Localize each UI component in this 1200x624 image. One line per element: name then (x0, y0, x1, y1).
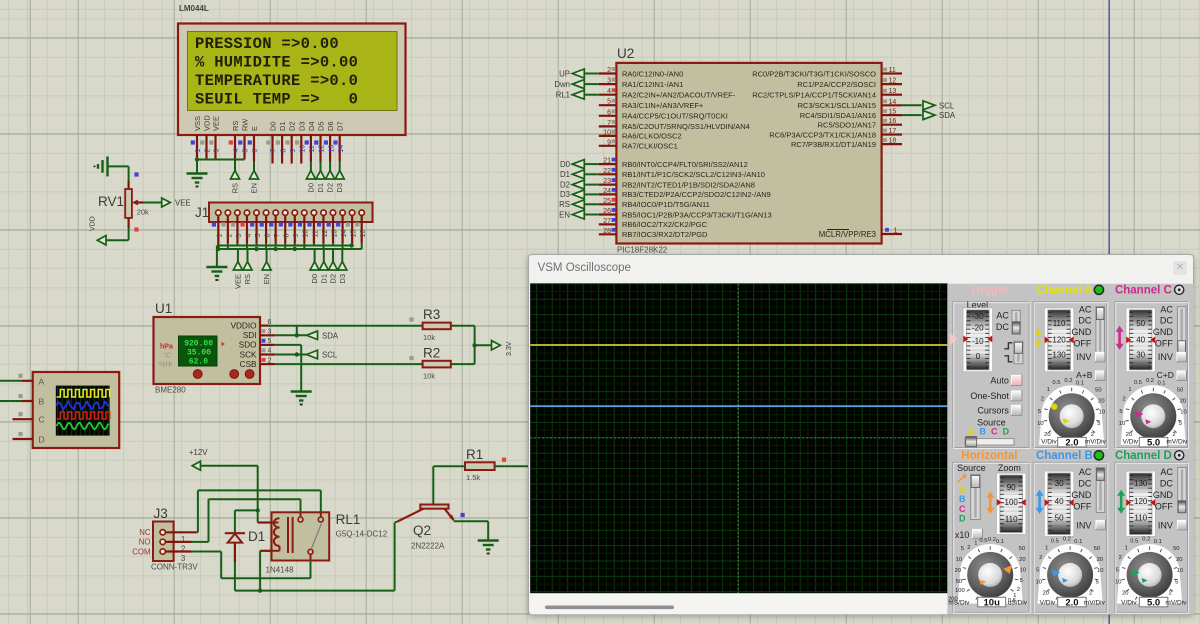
resistor R2 body (423, 361, 451, 368)
J1 pin 4 stub (246, 215, 248, 243)
svg-text:1.5k: 1.5k (466, 473, 480, 482)
svg-text:RS: RS (559, 200, 570, 209)
svg-text:GND: GND (1152, 490, 1173, 500)
J1 pin 16 state square (355, 222, 359, 226)
svg-text:5: 5 (1115, 568, 1118, 574)
svg-text:V/Div: V/Div (1121, 599, 1137, 606)
potentiometer RV1 body (125, 189, 132, 218)
wire to mini scope pin B (0, 400, 22, 402)
svg-text:VEE: VEE (233, 274, 242, 289)
svg-text:J1: J1 (195, 205, 209, 220)
LCD pin 6 stub (253, 135, 255, 161)
svg-text:16: 16 (360, 230, 367, 238)
svg-text:RC6/P3A/CCP3/TX1/CK1/AN18: RC6/P3A/CCP3/TX1/CK1/AN18 (769, 130, 876, 139)
svg-text:OFF: OFF (1154, 501, 1172, 511)
J1 pin 1 state square (212, 222, 216, 226)
svg-text:RA2/C2IN+/AN2/DACOUT/VREF-: RA2/C2IN+/AN2/DACOUT/VREF- (622, 91, 736, 100)
terminal RS below LCD (234, 161, 236, 171)
svg-text:Channel C: Channel C (1115, 284, 1172, 296)
svg-text:RB0/INT0/CCP4/FLT0/SRI/SS2/AN1: RB0/INT0/CCP4/FLT0/SRI/SS2/AN12 (622, 160, 748, 169)
microcontroller U2 body (616, 63, 881, 244)
svg-text:3: 3 (268, 329, 272, 336)
svg-text:5: 5 (1037, 409, 1040, 415)
svg-text:5: 5 (1175, 580, 1178, 586)
J1 pin 7 state square (269, 222, 273, 226)
J1 pin 6 circle (263, 210, 268, 215)
wire RV1 wiper to VEE (144, 202, 162, 204)
svg-text:UP: UP (559, 69, 570, 78)
J1 pin 12 state square (317, 222, 321, 226)
svg-text:5: 5 (243, 149, 250, 153)
channel C LED (1174, 285, 1183, 294)
RV1 top pin stub (128, 181, 130, 189)
svg-text:50: 50 (1054, 514, 1063, 523)
svg-text:OFF: OFF (1154, 339, 1172, 349)
terminal D0 at U2 RB0 (585, 163, 599, 165)
svg-text:2: 2 (1172, 432, 1175, 438)
BME280 green display (179, 336, 218, 366)
LCD pin 1 state square (191, 140, 195, 144)
J1 pin 8 stub (284, 215, 286, 243)
J1 pin 8 circle (283, 210, 288, 215)
svg-text:D4: D4 (307, 121, 316, 131)
svg-text:G5Q-14-DC12: G5Q-14-DC12 (336, 530, 388, 539)
channel C position arrow (1118, 330, 1121, 346)
J1 pin 11 state square (307, 222, 311, 226)
svg-text:14: 14 (341, 230, 348, 238)
channel C position gauge (1126, 308, 1156, 372)
LCD pin 14 stub (339, 135, 341, 162)
U2 pin 3 (RA1) stub (599, 83, 617, 85)
connector J3 body (153, 522, 174, 562)
svg-text:24: 24 (603, 188, 611, 195)
U2 pin 14 (RC3) stub (882, 104, 902, 106)
LCD pin 10 stub (300, 135, 302, 164)
channel D V/Div knob (1116, 544, 1182, 604)
wire J1 pin 1 riser (217, 243, 219, 246)
svg-text:0.2: 0.2 (1064, 378, 1072, 384)
svg-text:NC: NC (139, 528, 151, 537)
svg-text:RC1/P2A/CCP2/SOSCI: RC1/P2A/CCP2/SOSCI (797, 80, 876, 89)
svg-text:4: 4 (268, 348, 272, 355)
svg-text:RB1/INT1/P1C/SCK2/SCL2/C12IN3-: RB1/INT1/P1C/SCK2/SCL2/C12IN3-/AN10 (622, 170, 765, 179)
svg-text:D: D (39, 435, 45, 445)
channel D position gauge (1126, 471, 1156, 536)
svg-text:0.1: 0.1 (1157, 380, 1165, 386)
wire to mini scope pin A (0, 380, 22, 382)
svg-text:VDD: VDD (203, 115, 212, 131)
U2 pin 28 (RB7) stub (599, 233, 617, 235)
horizontal zoom gauge (996, 473, 1025, 534)
svg-text:Channel B: Channel B (1036, 450, 1093, 462)
svg-text:Q2: Q2 (413, 523, 431, 538)
svg-text:50: 50 (1093, 546, 1099, 552)
channel D LED (1174, 451, 1183, 460)
svg-text:RB5/IOC1/P2B/P3A/CCP3/T3CKI/T1: RB5/IOC1/P2B/P3A/CCP3/T3CKI/T1G/AN13 (622, 210, 772, 219)
resistor R3 body (423, 323, 451, 330)
svg-text:120: 120 (1134, 497, 1148, 506)
svg-text:3.3V: 3.3V (506, 341, 513, 356)
J1 pin 1 stub (217, 215, 219, 247)
J1 pin 11 stub (313, 215, 315, 243)
svg-text:50: 50 (1176, 387, 1182, 393)
svg-text:BME280: BME280 (155, 386, 186, 395)
svg-text:2: 2 (1118, 555, 1121, 561)
svg-text:B: B (979, 426, 986, 436)
svg-text:Channel A: Channel A (1036, 284, 1092, 296)
svg-text:D1: D1 (248, 529, 265, 544)
channel B position arrow (1038, 494, 1041, 510)
channel A V/Div knob (1038, 385, 1104, 445)
svg-text:mV/Div: mV/Div (1085, 438, 1107, 445)
Q2 emitter lead with arrow (445, 509, 454, 520)
svg-text:mV/Div: mV/Div (1165, 599, 1187, 606)
terminal D2 below J1 (332, 249, 334, 262)
terminal D1 below J1 (323, 249, 325, 262)
J1 pin 12 stub (322, 215, 324, 243)
svg-text:5.0: 5.0 (1147, 597, 1160, 608)
svg-text:E: E (250, 126, 259, 131)
wire R1 right (495, 465, 529, 467)
svg-text:D0: D0 (560, 160, 571, 169)
svg-text:mV/Div: mV/Div (1166, 438, 1188, 445)
svg-text:9: 9 (607, 139, 611, 146)
svg-text:11: 11 (889, 67, 896, 74)
J1 pin 10 stub (303, 215, 305, 243)
oscilloscope title bar (529, 255, 1193, 282)
svg-text:CSB: CSB (240, 360, 257, 369)
channel B section (1033, 462, 1107, 612)
svg-text:LM044L: LM044L (179, 4, 209, 13)
LCD pin 13 stub (329, 135, 331, 162)
svg-text:RB7/IOC3/RX2/DT2/PGD: RB7/IOC3/RX2/DT2/PGD (622, 230, 708, 239)
svg-text:0.5: 0.5 (1050, 539, 1058, 545)
oscilloscope screen (530, 284, 947, 594)
wire J1 bus upper (217, 245, 352, 247)
wire J1 pin 13 riser (332, 243, 334, 246)
svg-text:1: 1 (195, 149, 202, 153)
svg-text:25: 25 (603, 198, 611, 205)
svg-text:3: 3 (236, 234, 243, 238)
svg-text:AC: AC (1160, 467, 1173, 477)
svg-text:RW: RW (241, 118, 250, 131)
wire R1 left to Q2 base (433, 465, 465, 467)
svg-text:2: 2 (1122, 396, 1125, 402)
svg-text:9: 9 (293, 234, 300, 238)
J1 pin 3 stub (236, 215, 238, 243)
svg-text:2: 2 (1089, 591, 1092, 597)
wire LCD VSS/VDD/VEE/RW junction bus (197, 159, 245, 161)
horizontal zoom arrow (989, 496, 992, 510)
svg-text:Zoom: Zoom (997, 463, 1020, 473)
BME280 pad dots (193, 370, 202, 379)
svg-text:AC: AC (1160, 304, 1173, 314)
LCD pin 1 stub (196, 135, 198, 160)
J3 pin 3 circle (160, 549, 165, 554)
J1 pin 5 stub (255, 215, 257, 243)
svg-text:VDD: VDD (90, 216, 97, 231)
channel A position gauge (1044, 308, 1074, 372)
svg-text:4: 4 (245, 234, 252, 238)
channel C V/Div knob (1120, 385, 1186, 445)
svg-text:12: 12 (889, 78, 897, 85)
oscilloscope horizontal scrollbar (530, 593, 947, 614)
U2 pin 27 (RB6) stub (599, 223, 617, 225)
svg-text:OFF: OFF (1073, 339, 1091, 349)
svg-text:hPa: hPa (160, 344, 173, 351)
RL1 core lines (287, 517, 289, 553)
J1 pin 13 state square (327, 222, 331, 226)
svg-text:INV: INV (1157, 520, 1172, 530)
svg-text:SCK: SCK (240, 350, 257, 359)
svg-text:11: 11 (312, 230, 319, 237)
svg-text:1: 1 (1046, 387, 1049, 393)
terminal RL1 at U2 (585, 94, 599, 96)
mini scope component body (33, 372, 120, 448)
ground below J1 (216, 246, 218, 267)
svg-text:2: 2 (226, 234, 233, 238)
channel D position arrow (1119, 494, 1122, 510)
wire SDI to SDA terminal (275, 334, 306, 336)
svg-text:GND: GND (1071, 327, 1092, 337)
svg-text:D1: D1 (316, 183, 325, 193)
svg-text:RC3/SCK1/SCL1/AN15: RC3/SCK1/SCL1/AN15 (798, 101, 876, 110)
svg-text:SDI: SDI (243, 331, 257, 340)
svg-text:50: 50 (1136, 319, 1145, 328)
J1 pin 15 circle (349, 210, 354, 215)
svg-text:U1: U1 (155, 301, 172, 316)
svg-text:C: C (39, 415, 45, 425)
svg-text:D: D (959, 514, 966, 524)
svg-text:1: 1 (974, 540, 977, 546)
wire SCK to SCL terminal (275, 354, 306, 356)
svg-text:EN: EN (262, 274, 271, 284)
terminal D3 at U2 RB3 (585, 193, 599, 195)
svg-text:100: 100 (1004, 498, 1018, 507)
svg-text:26: 26 (603, 208, 611, 215)
svg-text:RA1/C12IN1-/AN1: RA1/C12IN1-/AN1 (622, 80, 683, 89)
wire J1 pin 12 riser (322, 243, 324, 249)
oscilloscope screen grid (535, 284, 537, 594)
svg-text:120: 120 (1052, 336, 1066, 345)
svg-text:RB4/IOC0/P1D/T5G/AN11: RB4/IOC0/P1D/T5G/AN11 (622, 200, 710, 209)
J1 pin 10 state square (298, 222, 302, 226)
oscilloscope control panel (947, 284, 1194, 615)
U2 pin 25 (RB4) stub (599, 203, 617, 205)
svg-text:AC: AC (1078, 467, 1091, 477)
LCD pin 8 stub (281, 135, 283, 164)
D1 anode lead (234, 543, 236, 562)
trigger section (952, 302, 1028, 448)
terminal SDA (307, 331, 318, 340)
svg-text:40: 40 (1136, 336, 1145, 345)
LCD pin 3 state square (209, 140, 213, 144)
ground at RV1 top (106, 156, 108, 176)
wire J1 pin 3 riser (236, 243, 238, 246)
svg-text:DC: DC (1159, 316, 1172, 326)
J1 pin 13 stub (332, 215, 334, 243)
U2 pin 26 (RB5) stub (599, 213, 617, 215)
wire J1 pin 2 riser (227, 243, 229, 249)
terminal D1 below LCD (320, 162, 322, 171)
svg-text:A+B: A+B (1076, 370, 1093, 380)
svg-text:10u: 10u (983, 597, 1000, 608)
U2 pin 15 (RC4) stub (882, 114, 902, 116)
J1 pin 11 circle (311, 210, 316, 215)
wire Q2 emitter to ground (454, 520, 489, 522)
svg-text:EN: EN (250, 183, 259, 193)
svg-text:5: 5 (1019, 578, 1022, 584)
U2 pin 12 (RC1) stub (882, 83, 902, 85)
LCD pin 12 stub (319, 135, 321, 162)
J3 pin 2 circle (160, 539, 165, 544)
svg-text:-20: -20 (972, 324, 984, 333)
svg-text:RA3/C1IN+/AN3/VREF+: RA3/C1IN+/AN3/VREF+ (622, 101, 704, 110)
LCD pin 5 stub (243, 135, 245, 160)
wire R3 branch down to SDA node (296, 326, 298, 336)
svg-text:D3: D3 (335, 183, 344, 193)
svg-text:2: 2 (967, 545, 970, 551)
svg-text:110: 110 (1134, 514, 1147, 523)
svg-text:15: 15 (351, 230, 358, 238)
svg-text:C: C (959, 504, 966, 514)
svg-text:35.00: 35.00 (187, 349, 211, 358)
svg-text:21: 21 (603, 158, 611, 165)
svg-text:RA7/CLKI/OSC1: RA7/CLKI/OSC1 (622, 142, 678, 151)
svg-text:7: 7 (271, 149, 278, 153)
svg-text:AC: AC (996, 310, 1009, 320)
LCD pin 5 state square (238, 140, 242, 144)
svg-text:6: 6 (265, 234, 272, 238)
svg-text:5: 5 (1095, 580, 1098, 586)
wire J3 NC to relay NC contact (165, 531, 196, 533)
terminal Dwn at U2 (585, 83, 599, 85)
mini scope trace B blue (57, 401, 109, 410)
svg-text:D7: D7 (336, 121, 345, 131)
LCD pin 3 stub (214, 135, 216, 160)
svg-text:30: 30 (1136, 351, 1145, 360)
LCD pin 2 state square (200, 140, 204, 144)
channel A section (1033, 302, 1107, 448)
svg-text:100: 100 (955, 588, 965, 594)
J1 pin 14 circle (340, 210, 345, 215)
svg-text:5: 5 (268, 338, 272, 345)
svg-text:Dwn: Dwn (554, 80, 570, 89)
svg-text:10k: 10k (423, 333, 435, 342)
svg-text:RC2/CTPLS/P1A/CCP1/T5CKI/AN14: RC2/CTPLS/P1A/CCP1/T5CKI/AN14 (752, 91, 876, 100)
svg-text:50: 50 (1018, 546, 1024, 552)
terminal D2 at U2 RB2 (585, 184, 599, 186)
svg-text:DC: DC (1078, 479, 1091, 489)
svg-text:D3: D3 (338, 274, 347, 284)
mini scope screen (56, 386, 110, 436)
terminal UP at U2 (585, 73, 599, 75)
RV1 bottom pin stub (128, 218, 130, 228)
svg-text:2N2222A: 2N2222A (411, 542, 445, 551)
horizontal time/div knob (957, 544, 1023, 604)
U2 pin 2 (RA0) stub (599, 72, 617, 74)
LCD pin 11 stub (310, 135, 312, 162)
J1 pin 9 stub (294, 215, 296, 243)
svg-text:DC: DC (995, 322, 1008, 332)
svg-text:10k: 10k (423, 372, 435, 381)
svg-text:RB6/IOC2/TX2/CK2/PGC: RB6/IOC2/TX2/CK2/PGC (622, 220, 708, 229)
LCD pin 7 state square (266, 140, 270, 144)
terminal EN at U2 RB5 (585, 214, 599, 216)
svg-text:5: 5 (1036, 568, 1039, 574)
U2 pin 5 (RA3) stub (599, 104, 617, 106)
svg-text:RV1: RV1 (98, 194, 124, 209)
svg-text:0.5: 0.5 (1052, 380, 1060, 386)
svg-text:3: 3 (607, 78, 611, 85)
terminal D1 at U2 RB1 (585, 173, 599, 175)
svg-text:0.1: 0.1 (1075, 380, 1083, 386)
wire J1 bus lower (218, 248, 361, 250)
svg-text:-10: -10 (972, 337, 984, 346)
wire SDO to ground (275, 344, 301, 346)
svg-text:A: A (959, 484, 966, 494)
junction dots on J1 bus (216, 247, 220, 251)
svg-text:mV/Div: mV/Div (1084, 599, 1106, 606)
svg-text:28: 28 (603, 228, 611, 235)
svg-text:12: 12 (322, 230, 329, 238)
svg-text:U2: U2 (617, 46, 634, 61)
wire bottom rail to Q2 collector (235, 590, 395, 592)
svg-text:D5: D5 (317, 121, 326, 131)
ground below LCD pin1 (187, 172, 208, 174)
J1 pin 2 state square (221, 222, 225, 226)
VSM Oscilloscope window (528, 254, 1194, 615)
svg-text:2.0: 2.0 (1065, 438, 1078, 449)
J1 pin 12 circle (321, 210, 326, 215)
J1 pin 9 circle (292, 210, 297, 215)
svg-text:10: 10 (1180, 409, 1186, 415)
svg-text:mS/Div: mS/Div (948, 599, 970, 606)
J1 pin 6 stub (265, 215, 267, 243)
sensor U1 BME280 body (154, 317, 261, 384)
svg-text:AC: AC (1078, 304, 1091, 314)
svg-text:10: 10 (1037, 421, 1043, 427)
svg-text:D2: D2 (560, 180, 570, 189)
terminal EN below LCD (253, 161, 255, 171)
svg-text:B: B (39, 397, 45, 407)
svg-text:D1: D1 (278, 121, 287, 131)
wire J1 pin 7 riser (275, 243, 277, 246)
svg-text:5: 5 (1178, 421, 1181, 427)
LCD pin 6 state square (248, 140, 252, 144)
trigger edge selector (1013, 341, 1022, 364)
U2 pin 4 (RA2) stub (599, 94, 617, 96)
wire RV1 bottom to VDD (128, 228, 130, 240)
terminal RS below J1 (247, 249, 249, 262)
svg-text:10: 10 (1019, 567, 1025, 573)
svg-text:20: 20 (1019, 557, 1025, 563)
wire VDDIO to R3 (269, 325, 423, 327)
svg-text:D2: D2 (288, 121, 297, 131)
svg-text:2: 2 (1168, 591, 1171, 597)
ground below BME280 (291, 390, 312, 392)
svg-text:17: 17 (889, 128, 897, 135)
svg-text:8: 8 (284, 234, 291, 238)
U2 pin 1 MCLR stub (882, 233, 902, 235)
LCD pin 8 state square (276, 140, 280, 144)
J1 pin 7 circle (273, 210, 278, 215)
svg-text:%Hr: %Hr (159, 362, 173, 369)
svg-text:4: 4 (233, 149, 240, 153)
terminal SDA at U2 pin15 (902, 114, 922, 116)
svg-text:0.2: 0.2 (987, 537, 995, 543)
J1 pin 4 state square (240, 222, 244, 226)
